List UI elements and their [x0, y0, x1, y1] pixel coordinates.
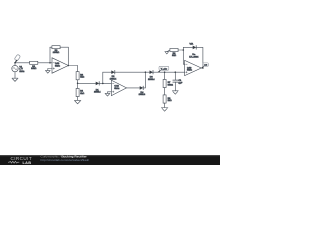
wire — [99, 82, 111, 84]
svg-text:1N914: 1N914 — [94, 92, 101, 94]
resistor R8 — [163, 95, 172, 103]
wire — [77, 97, 79, 101]
ground — [12, 78, 18, 81]
diode D1 — [94, 82, 101, 94]
junction — [49, 62, 51, 64]
wire to D1 — [78, 82, 96, 84]
svg-text:5kHz: 5kHz — [187, 70, 192, 72]
junction cap node — [175, 71, 177, 73]
wire output OA3 — [201, 67, 203, 69]
wire top rail to filter — [153, 71, 185, 73]
resistor R1 — [30, 61, 38, 70]
wire plus input — [48, 69, 52, 71]
svg-text:100kΩ: 100kΩ — [53, 52, 60, 54]
wire down to R7 — [164, 72, 166, 79]
potentiometer R6 — [170, 49, 178, 58]
svg-text:680Ω: 680Ω — [168, 84, 174, 86]
resistor R2 — [52, 46, 60, 54]
resistor R7 — [163, 79, 173, 87]
footer bar — [0, 155, 220, 165]
diode D6 — [193, 46, 197, 50]
svg-text:1N914: 1N914 — [148, 79, 155, 81]
node flag out — [202, 63, 209, 68]
svg-text:1kΩ: 1kΩ — [80, 93, 84, 95]
resistor R4 — [76, 88, 84, 96]
diode D3 — [148, 70, 155, 80]
ground — [74, 100, 81, 104]
capacitor C1 — [173, 72, 183, 91]
node flag Vin — [14, 54, 20, 62]
junction — [77, 83, 79, 85]
wire vertical to OA3 minus — [183, 47, 184, 64]
junction — [68, 65, 70, 67]
svg-text:1kΩ: 1kΩ — [172, 55, 176, 57]
svg-text:1kΩ: 1kΩ — [80, 77, 84, 79]
ground — [105, 93, 110, 96]
svg-text:V/A: V/A — [190, 42, 194, 45]
ground mini at R6 — [165, 50, 170, 54]
wire feedback left — [49, 47, 51, 63]
wire D4 rail — [183, 46, 192, 48]
svg-text:http://circuitlab.com/c/e2cabe: http://circuitlab.com/c/e2cabec29auh — [41, 158, 90, 162]
svg-text:LTL-2064: LTL-2064 — [189, 56, 199, 58]
wire — [164, 103, 166, 107]
svg-text:V_abs: V_abs — [161, 68, 168, 70]
wire output OA1 — [68, 66, 77, 72]
svg-text:1µF: 1µF — [178, 82, 182, 84]
wire top rail — [103, 71, 112, 73]
svg-text:5kHz: 5kHz — [114, 88, 119, 90]
node dot at V1 top — [14, 62, 16, 64]
ground — [45, 70, 50, 73]
logo zigzag — [8, 161, 19, 163]
junction — [202, 67, 204, 69]
wire feedback up — [102, 72, 104, 83]
wire — [15, 62, 30, 64]
wire plus input OA2 — [108, 92, 112, 94]
wire feedback right — [67, 47, 69, 65]
diode D2 — [110, 70, 117, 80]
svg-text:1N914: 1N914 — [139, 94, 146, 96]
voltage source V1 — [12, 63, 25, 73]
junction — [102, 83, 104, 85]
wire top rail — [115, 71, 150, 73]
wire output OA2 — [127, 87, 140, 89]
wire — [60, 46, 68, 48]
wire — [143, 72, 145, 88]
junction — [145, 71, 147, 73]
junction filter node — [164, 71, 166, 73]
svg-text:LAB: LAB — [23, 161, 32, 165]
svg-text:1kHz: 1kHz — [19, 71, 24, 73]
svg-text:1N914: 1N914 — [110, 78, 117, 80]
node flag mid — [158, 66, 169, 72]
ground — [161, 108, 168, 112]
junction — [183, 49, 185, 51]
wire — [14, 72, 16, 78]
wire — [50, 46, 52, 48]
wire R6 to vertical — [178, 49, 183, 51]
wire — [164, 88, 166, 95]
ground — [172, 91, 178, 94]
wire — [77, 80, 79, 89]
op-amp OA3 — [185, 54, 202, 75]
resistor R3 — [76, 72, 84, 80]
svg-text:1kΩ: 1kΩ — [168, 100, 172, 102]
svg-text:10kΩ: 10kΩ — [31, 68, 37, 70]
svg-text:5kHz: 5kHz — [55, 65, 60, 67]
op-amp OA2 — [111, 80, 126, 95]
svg-text:out: out — [204, 64, 207, 67]
diode D5 — [139, 86, 146, 96]
wire — [196, 47, 203, 68]
op-amp OA1 — [52, 58, 68, 73]
wire — [38, 62, 52, 64]
